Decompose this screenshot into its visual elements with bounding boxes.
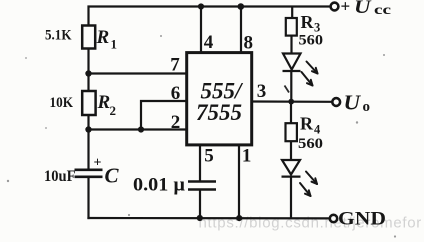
svg-text:C: C (105, 164, 120, 188)
terminal +Ucc (331, 3, 339, 11)
svg-text:1: 1 (111, 37, 118, 52)
LED D2 light arrows (300, 172, 317, 197)
resistor R3 (286, 18, 297, 36)
stray mark (285, 86, 290, 93)
wire pin1 (238, 145, 240, 219)
wire LED1 to pin3 (290, 71, 292, 102)
IC 555/7555 U1 (187, 53, 252, 145)
wire R3 to LED1 (290, 36, 292, 54)
svg-text:3: 3 (257, 81, 267, 102)
wire pin4 (200, 7, 202, 54)
wire top rail (89, 7, 331, 26)
node pin3-LED (288, 99, 294, 105)
wire pin5 lower (199, 190, 201, 219)
wire pin3 (252, 100, 332, 103)
wire pin6 (141, 101, 187, 130)
node R1-R2 pin7 (85, 70, 91, 76)
capacitor 0.01u (188, 182, 216, 190)
svg-text:https://blog.csdn.net/jeromefo: https://blog.csdn.net/jeromefor (199, 215, 422, 232)
wire R3 branch top stub (291, 7, 293, 19)
svg-text:7: 7 (170, 55, 180, 76)
wire left rail C-bottom (87, 177, 89, 219)
svg-text:560: 560 (299, 33, 324, 49)
speckles (7, 35, 396, 238)
wire pin3 to R4 (290, 102, 292, 124)
resistor R1 (82, 26, 95, 49)
LED D1 light arrows (302, 62, 318, 86)
node pin4-top (198, 3, 204, 9)
wire left rail R2-C (87, 115, 89, 170)
svg-text:5: 5 (204, 146, 214, 167)
wire pin2 (89, 128, 187, 130)
svg-text:5.1K: 5.1K (45, 28, 72, 44)
node pin8-top (238, 3, 245, 10)
svg-text:560: 560 (298, 136, 323, 152)
wire bottom rail (87, 217, 329, 220)
resistor R2 (82, 91, 95, 115)
svg-text:10K: 10K (50, 95, 74, 111)
svg-text:10uF: 10uF (44, 168, 76, 185)
svg-text:+: + (341, 0, 351, 16)
svg-text:0.01 µ: 0.01 µ (133, 175, 185, 196)
svg-text:R: R (96, 27, 110, 48)
resistor R4 (286, 123, 297, 141)
svg-text:8: 8 (244, 32, 254, 53)
node pin5-bottom (197, 215, 203, 221)
svg-text:R: R (301, 12, 315, 32)
terminal GND (330, 215, 337, 222)
wire pin5 (199, 145, 201, 182)
svg-text:4: 4 (314, 123, 321, 137)
node pin1-bottom (236, 215, 242, 221)
svg-text:R: R (97, 92, 111, 113)
node R2-C pin2 (85, 126, 91, 132)
svg-text:2: 2 (171, 112, 181, 133)
wire pin8 (240, 7, 242, 54)
svg-text:1: 1 (242, 146, 252, 167)
svg-text:4: 4 (204, 32, 214, 53)
capacitor C 10uF (75, 170, 103, 177)
terminal Uo (332, 98, 340, 106)
wire pin7 (89, 72, 187, 74)
svg-text:R: R (300, 114, 314, 134)
wire R4 to LED2 (290, 141, 292, 160)
svg-text:o: o (363, 99, 371, 115)
svg-text:2: 2 (110, 103, 117, 118)
svg-text:+: + (94, 156, 102, 171)
node pin6-pin2 (138, 126, 144, 132)
wire LED2 to bottom rail (290, 177, 292, 219)
wire left rail R1-R2 (87, 49, 89, 92)
svg-text:cc: cc (374, 3, 391, 18)
svg-text:GND: GND (338, 209, 386, 230)
LED D2 (282, 160, 301, 177)
svg-text:U: U (344, 91, 362, 115)
svg-text:7555: 7555 (196, 100, 242, 125)
svg-text:6: 6 (171, 83, 181, 104)
svg-text:U: U (354, 0, 372, 18)
LED D1 (283, 54, 301, 72)
